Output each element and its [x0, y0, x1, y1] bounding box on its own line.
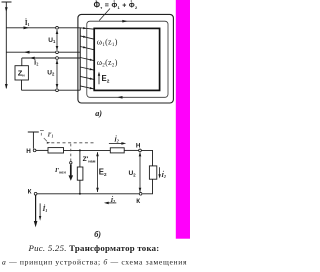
load resistor box (fig b)	[149, 166, 156, 179]
winding turn w1-t1	[58, 27, 94, 29]
wire: tick down to H	[32, 132, 34, 149]
svg-text:К: К	[28, 189, 32, 196]
arrow flux B bottom	[117, 96, 123, 99]
svg-text:Н: Н	[136, 143, 141, 150]
wire: rail H2 to load corner	[141, 150, 152, 166]
wire: magnetizing branch bottom	[79, 180, 81, 194]
I2 arrow below bottom rail	[104, 202, 116, 205]
U2 voltage arrow	[56, 60, 59, 89]
label I2 below rail	[110, 196, 116, 204]
svg-text:Рис. 5.25. Трансформатор тока:: Рис. 5.25. Трансформатор тока:	[28, 243, 160, 253]
dashed I'1 path bend	[40, 131, 50, 144]
arrow flux B top	[122, 20, 128, 23]
wire: rail H1 to R1	[36, 149, 48, 151]
node K2 terminal	[139, 192, 142, 195]
wire: winding bus vertical	[79, 28, 81, 90]
resistor R1 (Z2 winding)	[48, 148, 64, 153]
junction dot bottom (magnetizing)	[79, 193, 81, 195]
wire: rail R1 to R2	[64, 149, 111, 151]
flux loop B (inner)	[87, 21, 168, 97]
svg-text:ω2(z2): ω2(z2)	[97, 58, 118, 68]
winding turn w2-s4	[80, 86, 95, 89]
label flux equation	[94, 0, 138, 9]
U2 voltage arrow (fig b)	[139, 152, 142, 192]
arrow I2 left	[29, 57, 35, 60]
I2 arrow above R2	[109, 142, 126, 145]
arrow I1 return left	[24, 51, 30, 54]
node K1 terminal	[34, 192, 37, 195]
winding turn w2-s1	[80, 58, 95, 61]
winding turn w1-t3	[80, 46, 94, 50]
svg-text:б): б)	[94, 230, 101, 239]
label I1 (fig b)	[42, 204, 48, 213]
svg-text:а — принцип устройства; б — сх: а — принцип устройства; б — схема замеще…	[2, 257, 187, 266]
I2 arrow at load	[158, 167, 160, 178]
wire: bottom horizontal to S2	[22, 89, 56, 91]
wire: I2 horizontal	[22, 57, 56, 59]
node H2 terminal	[139, 149, 142, 152]
wire: stub S2 to bus	[58, 89, 80, 91]
label I2	[34, 59, 39, 67]
node S1 terminal	[56, 57, 59, 60]
wire: left vertical primary line	[5, 2, 7, 88]
dashed horizontal I' path	[51, 142, 94, 144]
label I2 at load	[160, 171, 166, 179]
resistor R2	[110, 148, 124, 153]
U1 voltage arrow	[56, 30, 59, 51]
svg-text:К: К	[136, 198, 140, 205]
node P1 terminal	[56, 26, 59, 29]
label I2 above R2	[113, 135, 119, 143]
wire: bottom rail	[37, 193, 139, 195]
wire: rail R2 to H2	[124, 149, 138, 151]
svg-text:а): а)	[95, 109, 102, 118]
svg-text:Φт = Φ1 + Φ2: Φт = Φ1 + Φ2	[94, 1, 138, 10]
arrow: left line end (down)	[5, 84, 8, 89]
wire: load box bottom down	[21, 80, 23, 90]
core (magnetic circuit)	[94, 28, 159, 90]
flux label pointer line	[99, 9, 110, 21]
load Zн box	[15, 66, 28, 80]
wire: K1 down (I1 out)	[35, 195, 37, 223]
resistor Z'нам box	[77, 167, 83, 180]
supply bus tick (top)	[2, 1, 12, 3]
E2 EMF arrow (fig a)	[98, 72, 100, 85]
svg-text:ω1(z1): ω1(z1)	[97, 38, 118, 48]
wire: stub P2 to bus	[58, 51, 80, 53]
I1 direction arrow (fig b)	[39, 203, 41, 220]
thick I'нам arrow	[69, 164, 74, 180]
node circle I'нам	[70, 162, 72, 164]
wire: primary return horizontal	[6, 51, 55, 53]
arrow I1 right	[24, 26, 30, 29]
arrow: current direction down on left line	[5, 7, 8, 12]
node P2 terminal	[56, 51, 59, 54]
wire: down to load box	[21, 58, 23, 66]
winding turn w2-s3	[80, 76, 95, 79]
flux loop A (outer)	[78, 14, 173, 103]
node H1 terminal	[33, 149, 36, 152]
arrow: I1 out end	[34, 221, 38, 227]
node S2 terminal	[56, 89, 59, 92]
magenta highlight bar	[176, 0, 190, 239]
junction dot top (magnetizing)	[79, 149, 81, 151]
wire: stub S1 to bus	[58, 57, 80, 59]
dashed vertical to magnetizing	[70, 144, 72, 161]
wire: magnetizing branch top	[79, 150, 81, 167]
wire: I1 top horizontal	[6, 27, 55, 29]
winding turn w2-s2	[80, 67, 95, 70]
wire: load bottom to K2	[142, 179, 152, 194]
supply tick (fig b)	[28, 131, 39, 133]
svg-text:Н: Н	[26, 148, 31, 155]
label I1	[25, 18, 30, 27]
winding turn w1-t2	[80, 36, 94, 40]
E2 arrow (fig b)	[96, 152, 99, 192]
